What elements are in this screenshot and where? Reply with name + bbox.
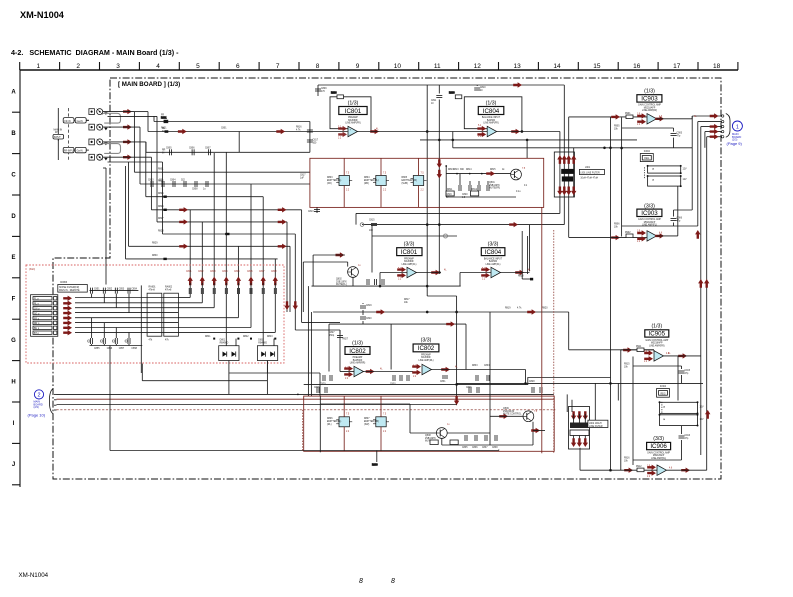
svg-text:IC903: IC903 [641,96,658,103]
IC804 label (3/3) [481,242,505,266]
svg-text:C843: C843 [210,271,216,273]
connector label box [58,282,88,292]
svg-text:BA4560F: BA4560F [421,356,431,359]
svg-text:M5218AFP: M5218AFP [644,221,656,224]
svg-text:RL o: RL o [34,304,39,306]
svg-text:R829: R829 [152,243,158,245]
svg-text:C837: C837 [482,447,488,449]
feed verticals into relays [190,283,275,346]
grid column numbers [36,63,720,70]
svg-text:LINE AMP(FL): LINE AMP(FL) [486,263,501,266]
wire IC804 to right [497,117,647,132]
fan row arrows [179,207,286,249]
svg-text:R842: R842 [243,336,249,338]
svg-text:C826: C826 [466,387,472,389]
svg-text:C808: C808 [192,189,198,191]
lower mid rail [312,285,461,287]
svg-text:IC905: IC905 [649,331,666,338]
divider cap C811 [431,96,442,105]
svg-text:XM-N1004: XM-N1004 [19,572,49,579]
svg-text:C842: C842 [198,271,204,273]
svg-text:C813: C813 [308,211,314,213]
svg-text:12: 12 [474,63,482,70]
svg-text:PREAMP: PREAMP [421,353,431,356]
svg-text:IC904: IC904 [660,386,667,388]
band2 wires [320,312,533,445]
U9a output wire [657,116,693,119]
upper return wire [154,116,310,152]
svg-text:C820: C820 [366,318,372,320]
diode block D802 [257,340,277,361]
svg-text:C857: C857 [119,348,125,350]
bus wire 3 [57,404,457,406]
op-amp U2a [354,366,364,376]
svg-text:2: 2 [37,393,40,399]
bias text cluster [489,182,528,190]
svg-text:IN: IN [162,152,165,154]
svg-text:C809: C809 [321,88,327,90]
svg-text:LINE AMP(RL): LINE AMP(RL) [651,457,666,460]
IC801 label (1/3) [339,101,367,125]
Q809 input arrow [499,414,508,419]
IC803 label (3/3) [413,338,439,362]
IC801 feedback loop [330,93,371,132]
IC803 top arrow [446,321,455,326]
svg-text:(Page 9): (Page 9) [727,141,743,146]
svg-text:IC903: IC903 [641,210,658,217]
svg-text:BT o: BT o [34,333,40,335]
svg-text:R828: R828 [158,230,164,232]
band1 down arrows [437,159,442,178]
svg-text:IC906: IC906 [650,443,667,450]
svg-text:Q808: Q808 [425,435,431,437]
feedback cap [614,126,683,138]
diode box drains [142,361,267,395]
feed down arrows [284,301,298,310]
svg-text:Ga-IN: Ga-IN [77,121,83,123]
dotted-box internal wires [75,285,275,373]
svg-text:BA4560F: BA4560F [348,119,358,122]
diode block D801 [219,340,239,361]
output pin circles [722,115,724,138]
IC802 fb caps [329,332,349,341]
svg-text:Q802: Q802 [336,279,342,281]
svg-text:R806: R806 [331,93,337,95]
svg-text:BALANCE INPUT: BALANCE INPUT [482,116,501,119]
IC802 input feeds [295,322,340,330]
wire to IC804 [358,131,488,133]
svg-text:IC902: IC902 [644,151,651,153]
comp row bottom: cap group [88,318,143,350]
regulator Q803 [327,173,352,192]
bias arrow [486,171,495,176]
LF902 frame [569,407,590,450]
op-amp U1a input arrows [338,126,347,140]
svg-text:C817: C817 [300,175,306,177]
band1 inner labels [448,169,505,171]
svg-text:[ MAIN BOARD ] (1/3): [ MAIN BOARD ] (1/3) [118,81,180,88]
svg-text:(3/3): (3/3) [404,242,415,248]
band2 resistors [430,440,458,445]
svg-text:RR o: RR o [34,323,40,325]
svg-text:M5218AFP: M5218AFP [644,106,656,109]
svg-text:IC801: IC801 [401,249,418,256]
svg-text:A: A [11,90,16,96]
svg-text:EMITTER(SW): EMITTER(SW) [402,180,418,182]
feedback loop IC903a [453,118,692,237]
resistor array RA801 [147,286,162,342]
U6a output wire [667,469,707,471]
op-amp U6a [657,465,667,475]
page link 2 caption [28,400,46,418]
svg-text:R803: R803 [327,177,333,179]
svg-text:R827: R827 [158,218,164,220]
svg-text:R905: R905 [614,126,620,128]
svg-text:C845: C845 [234,271,240,273]
IC802 feedback loop [329,324,466,371]
svg-text:(1/3): (1/3) [651,324,662,330]
band1 power rectangle [310,158,544,207]
svg-text:C819: C819 [446,194,452,196]
input jack J3 [97,139,103,145]
IC905 input wire [621,349,654,351]
lower rail caps [367,279,384,285]
svg-text:FL o: FL o [34,299,39,301]
op-amp U9a small arrows [637,113,664,124]
svg-text:FR-IN: FR-IN [64,121,70,123]
feedback loop IC903b [622,210,698,226]
svg-text:IC802: IC802 [349,348,366,355]
svg-text:2SD2144S: 2SD2144S [503,411,515,413]
opto block row 1 [647,165,687,174]
svg-text:(3/3): (3/3) [488,242,499,248]
svg-text:D801: D801 [220,340,226,342]
grid ruler top line [20,69,738,71]
svg-text:RB498D: RB498D [258,342,267,344]
feed caps [189,288,276,294]
down arrow on x456 [454,396,459,405]
L901 down arrows [557,187,576,196]
svg-text:13: 13 [513,63,521,70]
svg-text:C835: C835 [462,447,468,449]
U9b output wire [657,186,678,236]
svg-text:R841: R841 [205,336,211,338]
LF902 body [570,414,589,440]
page link 2 circle [34,390,43,399]
svg-text:FR: FR [161,115,164,117]
mid distribution wire [313,311,654,350]
mid distribution arrows [376,309,536,314]
grid left rail [19,70,21,487]
connector CN803 [31,295,58,337]
svg-text:8: 8 [359,578,363,585]
transistor Q802 [336,265,361,286]
IC906 input wire [580,448,657,471]
lower rail text [404,299,410,304]
svg-text:C838: C838 [492,447,498,449]
vertical link [427,296,456,405]
svg-text:C806: C806 [189,148,195,150]
svg-text:R802: R802 [158,180,164,182]
svg-text:C855: C855 [94,348,100,350]
transistor Q801 [511,168,526,180]
svg-text:GAIN CONTROL AMP: GAIN CONTROL AMP [645,339,668,342]
svg-text:M5218AFP: M5218AFP [651,342,663,345]
opamp row decoupling caps [320,375,409,386]
svg-text:C801: C801 [221,128,227,130]
svg-text:(RR): (RR) [364,183,369,185]
svg-text:R901: R901 [625,113,631,115]
svg-text:SG o: SG o [34,313,40,315]
svg-text:R801: R801 [158,169,164,171]
svg-text:C905: C905 [677,133,683,135]
svg-text:5: 5 [196,63,200,70]
grey ground hooks [103,113,121,153]
line filter L901 supply wire [604,147,612,149]
band1 bias junction dots [445,165,482,174]
opto block row 2 [647,175,687,187]
IC906 feedback [633,426,682,460]
svg-text:Q809: Q809 [503,408,509,410]
op-amp U1a output arrow [370,129,379,134]
bus wire 4 dashed [57,409,556,411]
svg-text:4: 4 [156,63,160,70]
svg-text:R902: R902 [625,232,631,234]
svg-text:R843: R843 [267,336,273,338]
filter block FL802 [63,147,89,152]
svg-text:R912: R912 [636,466,642,468]
svg-text:C820: C820 [462,194,468,196]
svg-text:(1/3): (1/3) [486,101,497,107]
svg-text:R806: R806 [327,418,333,420]
svg-text:C828: C828 [529,381,535,383]
maroon long vertical [541,207,543,453]
mid caps on wire [360,303,548,324]
svg-text:D802: D802 [258,340,264,342]
svg-text:IN: IN [162,131,165,133]
grid row letters [11,90,16,469]
svg-text:12V: 12V [700,407,705,409]
svg-text:C846: C846 [247,271,253,273]
connector row arrows [63,296,72,336]
L901 core [561,169,574,182]
L901 label box [579,167,604,180]
op-amp U2b [422,364,432,374]
svg-text:C: C [11,172,16,178]
svg-text:C815: C815 [369,220,375,222]
svg-text:C803: C803 [148,180,154,182]
svg-text:H: H [11,379,15,385]
main board dash-dot border [53,78,721,479]
IC903b input arrow [611,235,620,240]
main signal wire left channel [183,132,348,153]
top supply wire [318,85,564,96]
maroon dashed vertical [553,230,555,453]
IC906 input arrow [624,468,633,473]
svg-text:3: 3 [116,63,120,70]
IC903 label (1/3) [637,89,662,113]
svg-text:4-2. SCHEMATIC DIAGRAM - MA: 4-2. SCHEMATIC DIAGRAM - MAIN Board (1/3… [11,48,179,57]
ground dashed rail [68,108,70,160]
svg-text:MAIN IN: MAIN IN [54,129,63,132]
svg-text:9: 9 [356,63,360,70]
regulator REG2 block [657,386,670,397]
row labels [152,169,306,258]
svg-text:(1/3): (1/3) [644,89,655,95]
svg-text:M5218AFP: M5218AFP [653,454,665,457]
svg-text:C807: C807 [205,148,211,150]
svg-text:EMITTER(FL): EMITTER(FL) [327,421,342,423]
svg-text:C844: C844 [222,271,228,273]
REG2 dashed link [661,402,663,413]
svg-text:BA4560F: BA4560F [404,260,414,263]
svg-text:(1/3): (1/3) [352,340,363,346]
column mid labels [205,336,273,338]
svg-text:IC802: IC802 [418,345,435,352]
svg-text:C853: C853 [119,288,125,290]
svg-text:2SB1197K: 2SB1197K [425,438,436,440]
svg-text:C847: C847 [259,271,265,273]
comp row top: cap group [90,288,139,313]
svg-text:BA4560: BA4560 [489,260,498,263]
op-amp U2a arrows [344,366,374,377]
op-amp U5a [654,351,664,361]
input jack J2 [97,124,103,130]
band2 power rectangle [304,396,555,451]
svg-text:14: 14 [553,63,561,70]
svg-text:R826: R826 [158,206,164,208]
svg-text:(SUB): (SUB) [402,183,408,185]
svg-text:0.1u: 0.1u [516,191,521,193]
feedback cap 2 [614,218,683,229]
svg-text:R911: R911 [636,346,642,348]
mid rail cap [369,220,377,233]
svg-text:RR: RR [162,150,166,152]
IC903 input arrow [611,114,620,119]
row caps C803 group [148,180,208,191]
svg-text:EMITTER(RL): EMITTER(RL) [364,180,379,182]
U5a reg branch [677,356,679,401]
input jack J4 [97,154,103,160]
svg-text:LINE FILTER: LINE FILTER [589,426,603,428]
input row arrows [123,109,132,160]
svg-text:XM-N1004: XM-N1004 [20,10,65,20]
svg-text:C854: C854 [131,288,137,290]
svg-text:R818: R818 [518,276,524,278]
rail rc pairs [314,381,542,393]
svg-text:LINE AMP(RR): LINE AMP(RR) [350,362,366,365]
rc cluster right of U2b [440,365,490,383]
feed labels [186,271,277,273]
U5a output wire [654,350,701,356]
svg-text:D: D [11,214,16,220]
svg-text:PREAMP: PREAMP [353,356,363,359]
bus bracket [49,389,52,414]
svg-text:(Page 10): (Page 10) [28,413,46,418]
IC905 input arrow [623,347,632,352]
svg-text:1: 1 [736,124,739,130]
svg-text:RR-INPUT: RR-INPUT [64,151,76,153]
svg-text:GAIN CONTROL AMP: GAIN CONTROL AMP [638,218,661,221]
svg-text:1uF: 1uF [300,177,305,179]
right up arrow [705,410,710,419]
svg-text:15: 15 [593,63,601,70]
svg-text:L901: L901 [585,167,591,169]
mid rail 2 [372,225,457,273]
svg-text:RA801: RA801 [149,286,157,289]
output bracket [726,114,730,138]
regulator feed stubs [344,158,418,207]
grid row ticks [12,112,20,485]
input bias caps [296,127,319,145]
svg-text:MAIN IN · REMOTE: MAIN IN · REMOTE [59,289,80,292]
op-amp U6a arrows [647,465,690,476]
svg-text:LINE AMP(FR): LINE AMP(FR) [642,109,657,112]
svg-text:C827: C827 [329,332,335,334]
long vertical buses center [427,85,610,470]
bias caps [459,174,489,191]
svg-text:C858: C858 [131,348,137,350]
svg-text:EMITTER(RR): EMITTER(RR) [364,421,379,423]
U2a wires [340,330,413,372]
svg-text:FR o: FR o [34,318,40,320]
svg-text:C805: C805 [166,148,172,150]
svg-text:R816: R816 [296,127,302,129]
connector ring [444,234,448,238]
svg-text:12V: 12V [683,179,688,181]
svg-text:E: E [11,255,15,261]
svg-text:R814: R814 [466,169,472,171]
REG dashed link [644,167,646,179]
svg-text:47k×8: 47k×8 [165,288,172,291]
long rail y383 [457,383,703,385]
regulator stubs band2 [344,396,381,451]
jack ground triangles [104,112,107,160]
svg-text:R817: R817 [404,299,410,301]
input row wires [103,112,163,162]
op-amp U1b [407,267,417,277]
svg-text:GAIN CONTROL AMP: GAIN CONTROL AMP [638,104,661,107]
svg-text:R805: R805 [402,177,408,179]
power inlet cluster LF902 [571,411,588,420]
svg-text:BA4560F: BA4560F [353,359,363,362]
below band2 rail [304,396,499,466]
IC903 label (3/3) [637,204,662,227]
connector feed verticals [190,152,301,330]
dashed corner into band2 [302,410,304,452]
svg-text:(FR): (FR) [327,183,332,185]
svg-text:C810: C810 [480,87,486,89]
svg-text:2SB1197K: 2SB1197K [336,281,347,283]
svg-text:8: 8 [316,63,320,70]
svg-text:R916: R916 [624,458,630,460]
IC906 label (3/3) [647,436,671,460]
svg-text:PREAMP: PREAMP [348,116,358,119]
svg-text:J: J [12,462,15,468]
LF902 label box [588,420,608,428]
svg-text:C841: C841 [186,271,192,273]
IC804 feedback loop [449,93,523,133]
row series resistors [163,196,229,261]
svg-text:C829: C829 [320,384,326,386]
svg-text:1: 1 [36,63,40,70]
filter block FL801 [63,118,89,123]
bus wire 2 (B+) [57,398,554,400]
svg-text:R820: R820 [542,308,548,310]
svg-text:2SB1197K: 2SB1197K [489,185,500,187]
ground return vertical [103,168,106,285]
page link 1 caption [727,132,743,146]
